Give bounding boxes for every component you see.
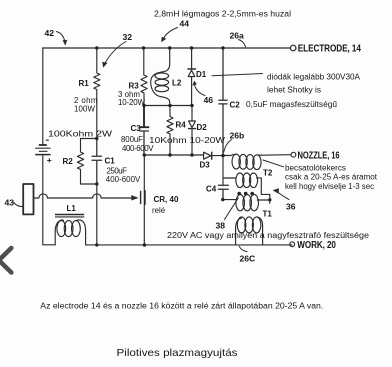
wire battery to bottom rail [42, 155, 44, 245]
svg-text:kell hogy elviselje 1-3 sec: kell hogy elviselje 1-3 sec [285, 182, 374, 191]
core dots transformer [237, 192, 241, 196]
arrowhead 44 [161, 37, 166, 43]
node 26b junction [223, 155, 231, 157]
node R2C1 junctions [95, 137, 98, 140]
svg-text:D3: D3 [200, 161, 211, 170]
svg-text:46: 46 [204, 95, 214, 105]
svg-text:L1: L1 [67, 204, 77, 213]
terminal ELECTRODE circle [290, 45, 296, 51]
arrowhead 32 [102, 62, 107, 68]
wire top rail 32/26a [43, 47, 290, 49]
wire relay column [143, 155, 145, 245]
node top rail junctions [95, 46, 98, 49]
svg-text:L2: L2 [172, 78, 182, 87]
svg-text:lehet Shotky is: lehet Shotky is [267, 86, 321, 95]
wire bottom rail 26C [43, 244, 55, 246]
leader 26b [224, 140, 232, 153]
svg-text:R4: R4 [176, 121, 187, 130]
resistor R2 [77, 139, 83, 185]
svg-text:26b: 26b [230, 130, 245, 140]
node bottom rail junctions [95, 243, 98, 246]
resistor R3 [141, 48, 147, 106]
wire mid rail [144, 105, 192, 107]
svg-text:csak a 20-25 A-es áramot: csak a 20-25 A-es áramot [285, 173, 378, 182]
svg-text:Az electrode 14 és a nozzle 16: Az electrode 14 és a nozzle 16 között a … [40, 301, 323, 310]
wire C1 column to bottom rail [96, 184, 98, 245]
svg-text:ELECTRODE, 14: ELECTRODE, 14 [298, 43, 361, 54]
svg-text:0,5uF magasfeszültségű: 0,5uF magasfeszültségű [246, 100, 338, 109]
transformer primary winding 220V [237, 217, 246, 233]
svg-text:10-20W: 10-20W [118, 98, 146, 107]
battery 40 [35, 140, 50, 154]
svg-text:32: 32 [123, 32, 133, 42]
svg-text:26C: 26C [240, 254, 256, 264]
wire T2 left lead [223, 177, 236, 179]
svg-text:D2: D2 [197, 123, 208, 132]
inductor L2 [162, 48, 170, 72]
arrowhead 42 [63, 40, 68, 46]
wire R2C1 bottom rail [81, 183, 97, 185]
leader 26C [239, 246, 247, 251]
inductor L1 [55, 220, 63, 245]
svg-text:36: 36 [286, 201, 296, 211]
transformer T1 [236, 195, 245, 211]
leader becsatolotekercs [263, 160, 284, 167]
svg-text:42: 42 [45, 28, 55, 38]
resistor R4 [167, 106, 173, 156]
capacitor C2 [219, 48, 227, 155]
svg-text:10Kohm 10-20W: 10Kohm 10-20W [149, 136, 226, 145]
leader arrow 44 [164, 28, 178, 39]
leader arrow 42 [57, 32, 65, 42]
leader 26a [239, 40, 246, 47]
svg-text:400-600V: 400-600V [106, 175, 141, 184]
svg-text:C1: C1 [105, 157, 116, 166]
resistor R1 [94, 48, 100, 139]
back chevron UI [0, 248, 11, 273]
node transformer junctions [221, 198, 224, 201]
svg-text:100Kohm 2W: 100Kohm 2W [48, 130, 113, 139]
wire battery column left [42, 48, 44, 145]
node rail155 junctions [143, 153, 146, 156]
relay contact CR [140, 192, 142, 204]
svg-text:NOZZLE, 16: NOZZLE, 16 [298, 150, 340, 161]
svg-text:+: + [47, 155, 52, 165]
svg-text:38: 38 [216, 221, 226, 231]
svg-text:R2: R2 [63, 157, 74, 166]
wire from box with relay arrow [34, 194, 132, 198]
svg-text:T2: T2 [263, 168, 273, 177]
leader diodak note [212, 74, 263, 76]
svg-text:220V AC vagy amilyen a nagyfes: 220V AC vagy amilyen a nagyfesztrafó fes… [167, 231, 370, 240]
svg-text:2,8mH légmagos 2-2,5mm-es huza: 2,8mH légmagos 2-2,5mm-es huzal [154, 10, 291, 19]
wire C4 column [222, 156, 224, 185]
wire rail 26b [144, 154, 203, 156]
wire to nozzle [261, 154, 291, 157]
svg-text:becsatolótekercs: becsatolótekercs [285, 164, 346, 173]
leader arrow 36 [279, 193, 289, 200]
capacitor C1 [92, 139, 102, 185]
svg-text:800uF: 800uF [121, 135, 143, 144]
capacitor C3 [140, 106, 149, 128]
diode D1 [191, 48, 193, 69]
diode D2 [191, 106, 193, 122]
svg-text:diódák legalább 300V30A: diódák legalább 300V30A [267, 72, 361, 81]
relay arrowhead [131, 195, 138, 200]
svg-text:Pilotives plazmagyujtás: Pilotives plazmagyujtás [117, 348, 238, 359]
leader 43 [14, 203, 23, 207]
svg-text:R1: R1 [79, 79, 90, 88]
terminal WORK circle [290, 242, 295, 247]
inductor coupling coil becsatolotekercs [232, 154, 240, 169]
svg-text:26a: 26a [230, 30, 245, 40]
capacitor C4 [218, 185, 228, 199]
arrowhead 36 [273, 188, 279, 194]
wire T1 left lead [223, 199, 236, 201]
svg-text:WORK, 20: WORK, 20 [297, 240, 336, 251]
svg-text:44: 44 [180, 18, 190, 28]
connector box 43 [23, 184, 33, 214]
svg-text:relé: relé [152, 206, 166, 215]
core L1 [55, 215, 84, 217]
terminal NOZZLE circle [291, 152, 296, 157]
arrowhead 46 [192, 81, 197, 86]
svg-text:D1: D1 [196, 70, 207, 79]
svg-text:T1: T1 [263, 209, 273, 218]
transformer T2 [236, 173, 244, 188]
svg-text:C3: C3 [131, 124, 142, 133]
leader 38 [225, 198, 239, 220]
svg-text:C4: C4 [206, 185, 217, 194]
svg-text:CR, 40: CR, 40 [154, 195, 179, 204]
node mid rail junctions [142, 104, 145, 107]
leader arrow 32 [105, 42, 126, 64]
leader arrow 46 [195, 85, 205, 96]
svg-text:100W: 100W [74, 105, 96, 114]
svg-text:43: 43 [5, 197, 15, 207]
wire R2C1 top rail [81, 138, 97, 140]
svg-text:400-600V: 400-600V [122, 144, 154, 153]
svg-text:C2: C2 [230, 100, 241, 109]
diode D3 [204, 152, 211, 159]
